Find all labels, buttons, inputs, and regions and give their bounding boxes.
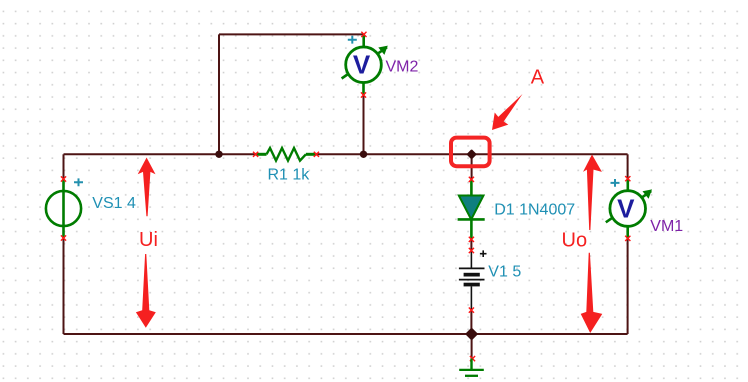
annotation arrow pointing to node A (492, 94, 523, 130)
junction at top-loop tap on main wire (215, 151, 222, 158)
wire: node A down to diode D1 top pin (471, 154, 473, 179)
wire: left vertical from main wire to VS1 top pin (63, 154, 65, 179)
wire: bottom horizontal net (64, 333, 628, 335)
label VM2 (386, 59, 419, 76)
junction at VM2 tap on main wire (360, 151, 367, 158)
svg-text:R1 1k: R1 1k (268, 167, 311, 184)
wire: top loop horizontal to VM2 top pin (219, 33, 364, 35)
wire: VM1 bottom pin down to bottom wire (627, 238, 629, 334)
wire: diode D1 bottom pin to battery V1 top pin (470, 239, 472, 250)
annotation arrow Uo (up half) (583, 155, 602, 231)
svg-text:V1 5: V1 5 (488, 263, 521, 280)
svg-text:VS1 4: VS1 4 (92, 195, 136, 212)
wire: ground stub below bottom wire (471, 334, 473, 359)
plus sign of VM1 (611, 179, 620, 187)
svg-text:Uo: Uo (562, 230, 588, 252)
svg-text:D1 1N4007: D1 1N4007 (494, 202, 575, 219)
label R1 1k (268, 167, 311, 184)
svg-text:VM1: VM1 (650, 218, 683, 235)
voltmeter VM2 (342, 32, 388, 98)
svg-text:A: A (531, 67, 545, 89)
battery V1 (459, 248, 485, 313)
annotation arrow Uo (down half) (581, 253, 603, 333)
label Ui (139, 229, 158, 251)
label A (531, 67, 545, 89)
plus sign of VM2 (348, 36, 357, 44)
junction at ground tap on bottom wire (467, 329, 477, 339)
annotation arrow Ui (up half) (138, 158, 156, 217)
svg-text:V: V (617, 193, 635, 223)
label Uo (562, 230, 588, 252)
svg-text:V: V (353, 50, 371, 80)
label VM1 (650, 218, 683, 235)
label D1 1N4007 (494, 202, 575, 219)
wire: battery V1 bottom pin to bottom wire (470, 310, 472, 334)
wire: top loop vertical at x=219 (218, 34, 220, 154)
voltmeter VM1 (606, 176, 652, 241)
wire: left vertical from VS1 bottom pin to bottom wire (63, 238, 65, 334)
svg-text:Ui: Ui (139, 229, 158, 251)
diode D1 (458, 177, 485, 242)
voltage source VS1 (46, 176, 81, 240)
resistor R1 (253, 148, 319, 161)
wire: main horizontal net from VS1 to R1 (64, 153, 256, 155)
ground (459, 356, 484, 376)
annotation arrow Ui (down half) (136, 254, 156, 328)
wire: main horizontal net from R1 to node A to right corner (316, 153, 627, 155)
label V1 5 (488, 263, 521, 280)
wire: right vertical from main wire to VM1 top pin (627, 154, 629, 178)
plus sign of battery V1 (480, 250, 487, 257)
label VS1 4 (92, 195, 136, 212)
svg-text:VM2: VM2 (386, 59, 419, 76)
node A marker (red box) (451, 138, 490, 167)
junction at node A on main wire (468, 150, 476, 158)
wire: VM2 bottom pin down to main wire (363, 95, 365, 154)
plus sign of VS1 (74, 178, 83, 186)
